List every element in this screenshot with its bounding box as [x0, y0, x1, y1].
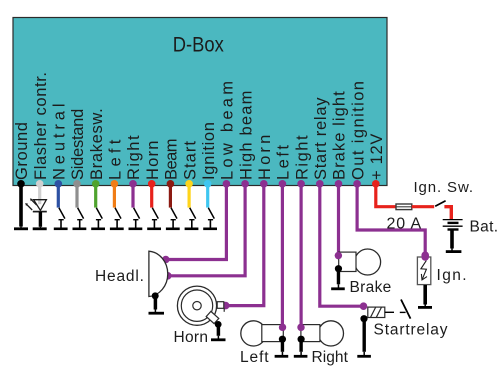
wire: Flasher contr. stub — [38, 184, 41, 204]
lamp Left: bulb — [241, 321, 284, 346]
svg-text:Brake: Brake — [350, 279, 392, 296]
ground (Left switch) — [110, 220, 124, 229]
svg-text:Sidestand: Sidestand — [69, 109, 87, 180]
ground (flasher) — [33, 227, 47, 230]
pin 11 terminal dot (Ignition) — [204, 180, 212, 188]
pin 14 terminal dot (Horn) — [260, 180, 268, 188]
svg-text:Bat.: Bat. — [470, 219, 499, 236]
ground (battery) — [446, 250, 462, 253]
wire: Low beam (pin 12) to load — [166, 184, 227, 260]
node: Right lamp supply dot — [298, 324, 305, 331]
node: Left lamp ground junction — [279, 336, 286, 343]
wire: Brake light (pin 18) to load — [337, 184, 340, 256]
wire: Right lamp to ground — [299, 339, 302, 352]
ground (Left lamp) — [275, 355, 289, 358]
svg-text:20 A: 20 A — [387, 216, 422, 233]
switch S4 (Left) — [115, 208, 121, 219]
battery B1 — [443, 220, 463, 230]
D-Box controller module U1 — [13, 18, 387, 186]
ground (Brakesw. switch) — [91, 220, 105, 229]
pin 4 terminal dot (Sidestand) — [73, 180, 81, 188]
svg-text:Ground: Ground — [13, 122, 31, 180]
node: Left lamp supply dot — [279, 324, 286, 331]
node: Horn connection dot — [222, 302, 230, 310]
wire: Left stub — [113, 184, 116, 208]
svg-text:Startrelay: Startrelay — [374, 322, 448, 339]
svg-text:Horn: Horn — [174, 329, 209, 346]
wire: headlight to ground — [154, 296, 158, 310]
ground (Right lamp) — [294, 355, 308, 358]
svg-text:Right: Right — [312, 349, 349, 366]
wire: Out ignition (pin 19) to load — [357, 184, 425, 255]
node: horn ground junction — [215, 321, 222, 328]
switch S5 (Right) — [134, 208, 140, 219]
fuse F1 — [396, 204, 412, 210]
svg-text:Left: Left — [275, 145, 293, 180]
pin 8 terminal dot (Horn) — [148, 180, 156, 188]
wire: Start stub — [188, 184, 191, 208]
wire: horn to ground — [217, 324, 221, 335]
node: Left connection dot — [279, 324, 287, 332]
svg-text:+ 12V: + 12V — [368, 134, 386, 180]
ground (main) — [14, 227, 28, 230]
node: Brake lamp supply dot — [335, 252, 342, 259]
ground (Start switch) — [185, 220, 199, 229]
pin 16 terminal dot (Right) — [297, 180, 305, 188]
wire: relay coil to ground — [363, 319, 366, 352]
wire: ignition coil to ground — [423, 285, 427, 305]
pin 20 terminal dot (+ 12V) — [372, 180, 380, 188]
wire: Ignition stub — [206, 184, 209, 208]
pin 19 terminal dot (Out ignition) — [353, 180, 361, 188]
node: Out ignition connection dot — [421, 251, 429, 259]
switch S6 (Horn) — [152, 208, 158, 219]
node: Brake lamp ground junction — [335, 265, 342, 272]
switch S3 (Brakesw.) — [96, 208, 102, 219]
pin 1 terminal dot (Ground) — [17, 180, 25, 188]
ground (headlight) — [149, 312, 165, 315]
svg-text:Ignition: Ignition — [200, 122, 218, 180]
wire: Brake lamp to ground — [337, 269, 340, 285]
wire: Neutral stub — [57, 184, 60, 208]
headlight LP1 (Headl.) — [149, 251, 168, 296]
switch S2 (Sidestand) — [78, 208, 84, 219]
relay K1 coil (Startrelay) — [368, 307, 385, 317]
wire: Ground pin to ground — [19, 184, 23, 227]
ground (relay) — [357, 355, 371, 358]
ground (Right switch) — [129, 220, 143, 229]
wire: ignition switch to battery — [444, 207, 451, 219]
ground (ignition coil) — [418, 306, 432, 309]
pin 18 terminal dot (Brake light) — [335, 180, 343, 188]
LED D1 (flasher indicator) — [25, 198, 47, 211]
switch S8 (Start) — [190, 208, 196, 219]
ignition coil (Ign.) body — [417, 257, 430, 285]
wire: Right (pin 16) to load — [300, 184, 303, 327]
svg-text:Start: Start — [181, 141, 199, 180]
svg-text:Ign. Sw.: Ign. Sw. — [414, 179, 474, 196]
pin 6 terminal dot (Left) — [111, 180, 119, 188]
pin 2 terminal dot (Flasher contr.) — [36, 180, 44, 188]
node: Low beam connection dot — [162, 256, 170, 264]
svg-text:D-Box: D-Box — [173, 34, 224, 57]
wire: LED cathode to ground — [39, 212, 42, 227]
svg-text:Headl.: Headl. — [95, 268, 144, 285]
lamp Right: bulb — [301, 321, 344, 346]
wire: Beam stub — [169, 184, 172, 208]
pin 5 terminal dot (Brakesw.) — [92, 180, 100, 188]
wire: Left (pin 15) to load — [281, 184, 284, 327]
ground (Ignition switch) — [203, 220, 217, 229]
wire: Horn stub — [150, 184, 153, 208]
svg-text:Brake light: Brake light — [331, 91, 349, 180]
node: headlight ground junction — [152, 292, 159, 299]
switch S9 (Ignition) — [208, 208, 214, 219]
pin 13 terminal dot (High beam) — [241, 180, 249, 188]
wire: Start relay (pin 17) to load — [320, 184, 364, 306]
node: Start relay connection dot — [360, 302, 368, 310]
node: Brake light connection dot — [335, 252, 343, 260]
pin 10 terminal dot (Start) — [185, 180, 193, 188]
svg-text:Horn: Horn — [256, 135, 274, 180]
node: High beam connection dot — [164, 272, 172, 280]
node: Right lamp ground junction — [298, 336, 305, 343]
pin 12 terminal dot (Low beam) — [223, 180, 231, 188]
svg-text:Left: Left — [240, 349, 269, 366]
lamp Brake: bulb — [339, 249, 381, 275]
horn LS1 (Horn) — [177, 286, 224, 325]
pin 15 terminal dot (Left) — [279, 180, 287, 188]
pin 3 terminal dot (Neutral) — [55, 180, 63, 188]
ground (Horn switch) — [147, 220, 161, 229]
ground (Brake lamp) — [331, 287, 345, 290]
pin 9 terminal dot (Beam) — [167, 180, 175, 188]
wire: relay coil to contact — [385, 311, 394, 313]
switch S1 (Neutral) — [59, 208, 65, 219]
wire: Left lamp to ground — [281, 339, 284, 352]
ground (Sidestand switch) — [73, 220, 87, 229]
svg-text:Start relay: Start relay — [312, 97, 330, 180]
node: Out ignition dot on coil — [421, 253, 429, 261]
pin 17 terminal dot (Start relay) — [316, 180, 324, 188]
switch S7 (Beam) — [171, 208, 177, 219]
ground (Beam switch) — [166, 220, 180, 229]
wire: fuse to ignition switch — [412, 205, 434, 208]
svg-text:High beam: High beam — [237, 91, 255, 180]
svg-text:Horn: Horn — [144, 141, 162, 180]
pin 7 terminal dot (Right) — [129, 180, 137, 188]
wire: Right stub — [131, 184, 134, 208]
svg-text:Right: Right — [293, 135, 311, 180]
wire: Brakesw. stub — [94, 184, 97, 208]
svg-text:Brakesw.: Brakesw. — [88, 108, 106, 180]
node: relay coil ground junction — [360, 315, 367, 322]
svg-text:Flasher contr.: Flasher contr. — [32, 72, 50, 180]
switch: ignition switch (open) — [435, 201, 445, 206]
svg-text:Out ignition: Out ignition — [349, 81, 367, 180]
wire: + 12V to fuse — [376, 184, 396, 207]
wire: Sidestand stub — [75, 184, 78, 208]
wire: High beam (pin 13) to load — [168, 184, 245, 276]
wire: battery to ground — [450, 231, 454, 249]
svg-text:Right: Right — [125, 135, 143, 180]
wire: Horn (pin 14) to load — [226, 184, 264, 306]
svg-text:Beam: Beam — [163, 139, 181, 181]
node: Right connection dot — [297, 324, 305, 332]
ground (Neutral switch) — [54, 220, 68, 229]
ground (horn) — [211, 338, 226, 341]
relay contact (open switch) — [400, 300, 411, 319]
